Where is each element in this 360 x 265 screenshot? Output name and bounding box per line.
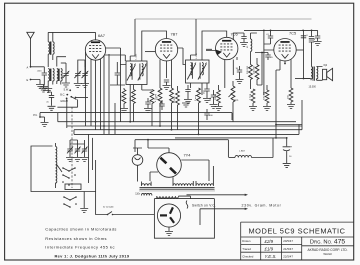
svg-text:Resistances shown in Ohms: Resistances shown in Ohms xyxy=(45,236,107,241)
svg-text:B.C.: B.C. xyxy=(60,93,65,96)
svg-text:Checked: Checked xyxy=(242,254,253,258)
svg-text:GRAM: GRAM xyxy=(60,100,68,103)
svg-text:Traced: Traced xyxy=(242,247,251,251)
svg-text:21/5/47: 21/5/47 xyxy=(283,247,293,251)
svg-text:Switch on V.C.: Switch on V.C. xyxy=(192,203,216,207)
svg-text:.0001: .0001 xyxy=(37,71,42,73)
svg-text:50,000: 50,000 xyxy=(215,93,217,100)
svg-text:Drawn: Drawn xyxy=(242,239,251,243)
svg-text:7C5: 7C5 xyxy=(289,31,296,36)
svg-text:100,000: 100,000 xyxy=(254,65,256,74)
svg-text:E: E xyxy=(27,78,29,82)
svg-text:Rev 1: J. Dodgshun 11th July: Rev 1: J. Dodgshun 11th July 2019 xyxy=(55,254,130,259)
svg-text:Capacities shown in Microf: Capacities shown in Microfarads xyxy=(45,227,117,232)
svg-text:15,000: 15,000 xyxy=(309,86,317,89)
svg-text:7C6: 7C6 xyxy=(231,32,238,37)
svg-text:WAIHI: WAIHI xyxy=(323,252,331,256)
svg-text:DRG. NO. 475: DRG. NO. 475 xyxy=(310,239,346,246)
svg-text:7B7: 7B7 xyxy=(171,32,178,37)
svg-text:£1/9: £1/9 xyxy=(264,246,274,251)
svg-text:2 meg: 2 meg xyxy=(195,94,197,101)
svg-text:A: A xyxy=(27,65,29,69)
svg-text:500,000: 500,000 xyxy=(247,65,249,74)
svg-text:6|4: 6|4 xyxy=(324,63,328,67)
svg-text:Intermediate Frequency 455 k: Intermediate Frequency 455 kc xyxy=(45,245,115,250)
svg-text:£2/9: £2/9 xyxy=(264,239,274,244)
svg-text:110v: 110v xyxy=(135,193,141,196)
svg-text:Y.E.S.: Y.E.S. xyxy=(265,254,277,259)
svg-text:L.8&9: L.8&9 xyxy=(239,151,245,153)
svg-text:S.W.: S.W. xyxy=(64,89,70,92)
svg-text:50,000: 50,000 xyxy=(174,96,176,103)
svg-text:P.U.: P.U. xyxy=(33,114,38,117)
svg-text:V.C.: V.C. xyxy=(235,99,240,102)
svg-text:7Y4: 7Y4 xyxy=(184,153,192,158)
svg-text:230v. Gram. Motor: 230v. Gram. Motor xyxy=(242,203,282,207)
svg-text:22/5/47: 22/5/47 xyxy=(283,254,293,258)
svg-text:2 meg: 2 meg xyxy=(250,93,252,100)
svg-text:L.4&5: L.4&5 xyxy=(136,53,138,59)
svg-text:20/5/47: 20/5/47 xyxy=(283,239,293,243)
svg-text:MODEL 5C9 SCHEMATIC: MODEL 5C9 SCHEMATIC xyxy=(248,226,345,235)
svg-text:for turntable: for turntable xyxy=(103,206,115,209)
svg-text:6A7: 6A7 xyxy=(98,33,105,38)
